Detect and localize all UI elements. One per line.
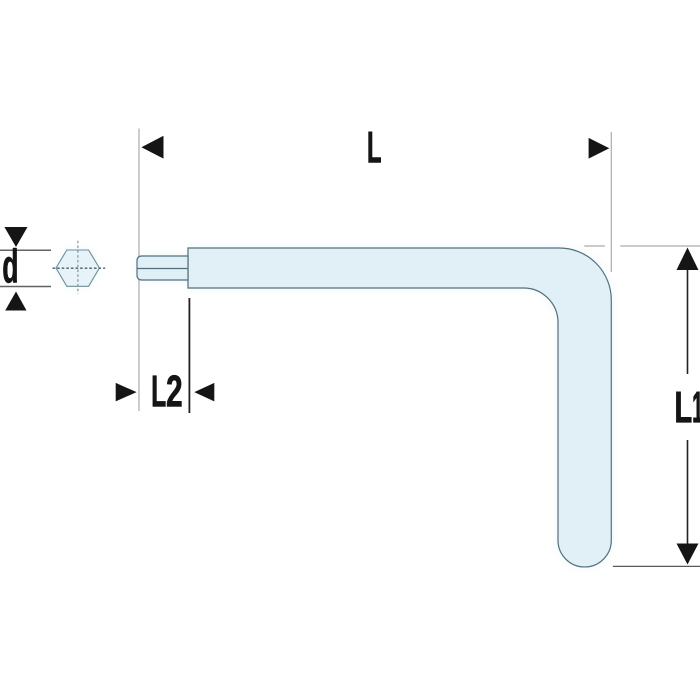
d dimension bottom line — [0, 286, 51, 288]
extension line bottom of L1 — [613, 565, 700, 567]
label L2 — [153, 376, 166, 407]
hex key body (L-shaped shaft) — [188, 248, 611, 567]
label L1 — [676, 392, 691, 423]
label d — [3, 248, 16, 283]
hexagon vertical centerline (dashed) — [77, 241, 79, 294]
extension line top of L1 (left segment) — [584, 245, 605, 247]
hex tip edge line — [138, 268, 189, 270]
d arrow bottom (pointing up) — [5, 292, 26, 311]
extension line right of L2 — [188, 298, 190, 413]
d arrow top (pointing down) — [4, 227, 27, 247]
L dimension right arrow — [589, 138, 610, 159]
L dimension left arrow — [141, 136, 163, 159]
d dimension top line — [0, 249, 51, 251]
extension line right of L — [610, 132, 612, 272]
extension line left (shared by L and L2) — [138, 129, 140, 412]
L1 top arrow (pointing up) — [677, 248, 699, 271]
L1 dimension line lower segment — [687, 440, 689, 544]
hexagon cross-section — [56, 250, 99, 286]
L1 dimension line upper segment — [687, 270, 689, 374]
L2 right arrow (pointing left) — [194, 383, 214, 402]
L1 bottom arrow (pointing down) — [677, 544, 699, 565]
label L — [369, 132, 381, 163]
extension line top of L1 (right segment) — [620, 245, 700, 247]
hex key tip (small hex end) — [137, 256, 188, 280]
L2 left arrow (pointing right) — [116, 383, 137, 402]
soft halo behind key — [56, 248, 611, 567]
hexagon horizontal centerline (dashed) — [53, 267, 106, 269]
